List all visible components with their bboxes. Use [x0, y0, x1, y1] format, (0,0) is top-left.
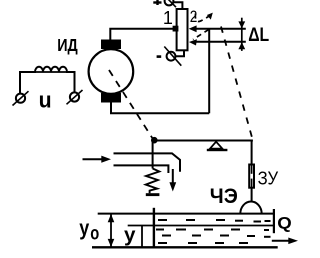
svg-text:ИД: ИД: [57, 35, 78, 55]
water dashes row 3: [162, 236, 271, 237]
dashed rotation arc with arrowhead: [195, 14, 211, 22]
wiper arrow line (position 1): [193, 28, 246, 30]
spring: [146, 169, 160, 194]
motor brush top: [101, 40, 121, 50]
tank top line: [98, 213, 274, 215]
motor M armature circle: [89, 49, 134, 94]
water dashes row 1: [158, 220, 271, 222]
svg-text:Q: Q: [277, 213, 292, 232]
svg-text:о: о: [90, 223, 99, 244]
float dome (sensing element): [240, 202, 261, 214]
terminal - circle: [167, 52, 176, 61]
wire lever to ZU: [251, 141, 253, 165]
fulcrum triangle: [210, 142, 223, 149]
water dashes row 4: [158, 242, 248, 244]
dimension arrow y0: [110, 214, 112, 247]
dashed shaft line motor to lever: [109, 70, 153, 139]
down arrow (valve motion): [172, 169, 174, 184]
long dashed link line to lever: [221, 27, 252, 139]
svg-text:у: у: [124, 224, 136, 247]
junction dot at potentiometer left: [173, 26, 179, 32]
input rod upper line: [114, 153, 181, 171]
minus sign: [157, 55, 162, 58]
svg-text:2: 2: [190, 8, 198, 26]
tank left wall: [153, 208, 155, 248]
spring anchor bar: [146, 193, 160, 196]
dimension line DL: [241, 18, 243, 51]
winding W (control winding coil): [20, 67, 75, 94]
svg-text:у: у: [79, 216, 89, 240]
potentiometer R body: [177, 9, 188, 50]
water level line: [128, 225, 273, 227]
wire potentiometer bottom to - terminal: [176, 50, 184, 56]
wire + terminal to potentiometer top: [174, 2, 183, 8]
terminal X2 (right, circle with slash): [70, 92, 79, 101]
ZU body (setting device): [249, 165, 254, 188]
terminal + circle: [165, 0, 174, 5]
input rod lower line: [114, 165, 169, 173]
wire motor bottom to wiper wire: [111, 103, 209, 114]
outflow arrow Q: [272, 240, 290, 242]
tank right wall: [273, 209, 275, 233]
wiper displaced line (position 2): [193, 41, 246, 43]
wire wiper down: [208, 29, 210, 114]
water dashes row 2: [156, 229, 269, 232]
input arrow (left): [83, 158, 104, 160]
link from lever dot down to spring: [152, 140, 154, 169]
tank bottom line: [92, 246, 278, 248]
fulcrum base bar: [207, 149, 228, 151]
terminal X1 (left, circle with slash): [16, 94, 25, 103]
wire ZU to float: [251, 188, 253, 202]
svg-text:1: 1: [163, 8, 173, 28]
svg-text:ЧЭ: ЧЭ: [210, 185, 238, 208]
plus sign: [153, 1, 161, 3]
svg-text:ΔL: ΔL: [248, 24, 269, 46]
y level tick: [141, 225, 143, 247]
lever arm line: [154, 140, 253, 142]
motor brush bottom: [101, 93, 121, 103]
lever pivot dot: [151, 137, 158, 144]
dashed wiper shaft: [193, 30, 209, 40]
wire motor top to potentiometer: [110, 29, 175, 40]
svg-text:ЗУ: ЗУ: [258, 169, 279, 189]
svg-text:u: u: [39, 87, 52, 112]
